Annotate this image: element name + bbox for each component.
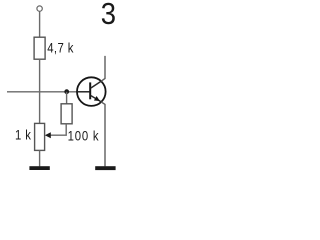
terminal (input connector) bbox=[37, 6, 42, 11]
wire P1 to ground bbox=[39, 150, 41, 166]
collector wire to stub bbox=[101, 56, 105, 81]
transistor Q1 circle bbox=[77, 77, 106, 106]
wire base node horizontal bbox=[7, 91, 89, 93]
wire R1 to potentiometer P1 (crosses base wire) bbox=[39, 59, 41, 123]
node junction dot bbox=[64, 89, 69, 94]
collector lead inside circle bbox=[91, 81, 101, 88]
transistor Q1 base bar bbox=[89, 82, 91, 99]
wiper arrowhead into P1 bbox=[45, 132, 51, 138]
ground left bbox=[29, 166, 49, 170]
transistor Q1 base lead inside circle bbox=[77, 91, 89, 93]
resistor R1 4,7 k bbox=[34, 37, 45, 59]
emitter wire to ground bbox=[101, 102, 105, 166]
emitter arrowhead bbox=[94, 96, 100, 101]
svg-text:4,7 k: 4,7 k bbox=[47, 39, 74, 56]
resistor R2 100 k bbox=[61, 104, 72, 124]
wire node to R2 bbox=[66, 92, 68, 104]
emitter lead inside circle bbox=[91, 96, 101, 102]
circuit schematic fragment, exercise 3 bbox=[0, 0, 126, 178]
svg-text:100 k: 100 k bbox=[68, 127, 100, 144]
svg-text:1 k: 1 k bbox=[15, 126, 31, 143]
wire R2 to wiper arrow bbox=[50, 124, 66, 135]
svg-text:3: 3 bbox=[101, 0, 116, 32]
ground right bbox=[95, 166, 115, 170]
wire terminal to R1 bbox=[39, 11, 41, 37]
potentiometer P1 1 k bbox=[35, 123, 45, 150]
